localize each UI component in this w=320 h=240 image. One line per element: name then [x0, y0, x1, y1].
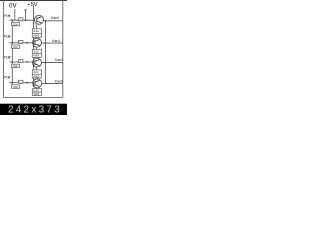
- svg-text:10k: 10k: [13, 22, 18, 26]
- wire 0V chain rail: [11, 20, 13, 85]
- node channel 4 / 0V chain: [11, 82, 13, 84]
- node +5V rail channel 1: [33, 23, 35, 25]
- wire output channel 4: [42, 82, 63, 84]
- resistor R7 10k: [12, 64, 20, 68]
- caption bar: [0, 104, 67, 116]
- svg-text:10k: 10k: [13, 45, 18, 49]
- node channel 1 / riser: [25, 19, 27, 21]
- terminal cap: [24, 9, 26, 11]
- pin dot PL4: [8, 15, 10, 17]
- node channel 2 mid: [26, 42, 28, 44]
- pin dot PL1: [8, 76, 10, 78]
- IC label box U4: [32, 89, 41, 96]
- node +5V rail channel 3: [33, 65, 35, 67]
- svg-text:242x373: 242x373: [8, 105, 62, 115]
- svg-text:4069: 4069: [33, 74, 39, 78]
- node channel 3 mid: [26, 61, 28, 63]
- node bus / output 1: [45, 20, 47, 22]
- wire riser channel 1: [25, 10, 27, 20]
- resistor R1 1k: [19, 18, 23, 22]
- wire Q4 to U4: [35, 87, 37, 90]
- svg-text:Kan2: Kan2: [55, 58, 63, 62]
- node channel 1 / 0V chain: [11, 19, 13, 21]
- IC label box U1: [32, 29, 41, 38]
- wire channel 4: [9, 82, 34, 84]
- svg-text:4069: 4069: [33, 54, 39, 58]
- wire 0V drop to channel 1: [14, 9, 16, 20]
- node bus / output 3: [45, 62, 47, 64]
- wire channel 2: [9, 42, 34, 44]
- resistor R6 10k: [12, 45, 20, 49]
- transistor Q3: [33, 58, 42, 67]
- transistor Q4: [33, 79, 42, 88]
- IC label box U3: [32, 70, 41, 78]
- wire output channel 1: [43, 20, 63, 22]
- wire Q1 to U1: [35, 24, 37, 29]
- wire channel 3: [9, 61, 34, 63]
- resistor R5 10k: [12, 22, 20, 26]
- svg-text:0V: 0V: [9, 2, 17, 9]
- node +5V rail channel 2 lower: [33, 46, 35, 48]
- svg-text:4069: 4069: [33, 34, 39, 38]
- wire channel 1: [9, 19, 35, 21]
- resistor R4 1k: [19, 80, 23, 84]
- node bus / output 2: [45, 42, 47, 44]
- svg-text:Kan0: Kan0: [51, 16, 59, 20]
- svg-text:IC1c: IC1c: [33, 70, 39, 74]
- wire output bus vertical: [44, 21, 46, 84]
- svg-text:+5V: +5V: [27, 2, 38, 8]
- node channel 2 / 0V chain: [11, 42, 13, 44]
- pin dot PL3: [8, 35, 10, 37]
- wire Q3 to U3: [35, 67, 37, 70]
- node channel 4 mid: [26, 82, 28, 84]
- svg-text:Kan1: Kan1: [52, 39, 60, 43]
- svg-text:4069: 4069: [33, 92, 39, 96]
- svg-text:IC1b: IC1b: [33, 50, 39, 54]
- wire +5V rail: [33, 6, 35, 87]
- transistor Q2: [33, 38, 42, 47]
- node channel 3 / 0V chain: [11, 61, 13, 63]
- svg-text:10k: 10k: [13, 85, 18, 89]
- svg-text:10k: 10k: [13, 64, 18, 68]
- resistor R8 10k: [12, 85, 20, 89]
- schematic border frame: [0, 0, 67, 98]
- wire output channel 3: [41, 62, 62, 64]
- wire output channel 2: [41, 42, 62, 44]
- transistor Q1: [35, 15, 44, 24]
- node bus / output 4: [45, 83, 47, 85]
- IC label box U2: [32, 49, 41, 57]
- svg-text:IC1a: IC1a: [33, 29, 39, 33]
- node +5V rail channel 2 upper: [33, 37, 35, 39]
- resistor R3 1k: [19, 60, 23, 64]
- resistor R2 1k: [19, 40, 23, 44]
- pin dot PL2: [8, 56, 10, 58]
- wire Q2 to U2: [35, 47, 37, 49]
- node +5V rail channel 4: [33, 85, 35, 87]
- svg-text:Kan3: Kan3: [55, 79, 63, 83]
